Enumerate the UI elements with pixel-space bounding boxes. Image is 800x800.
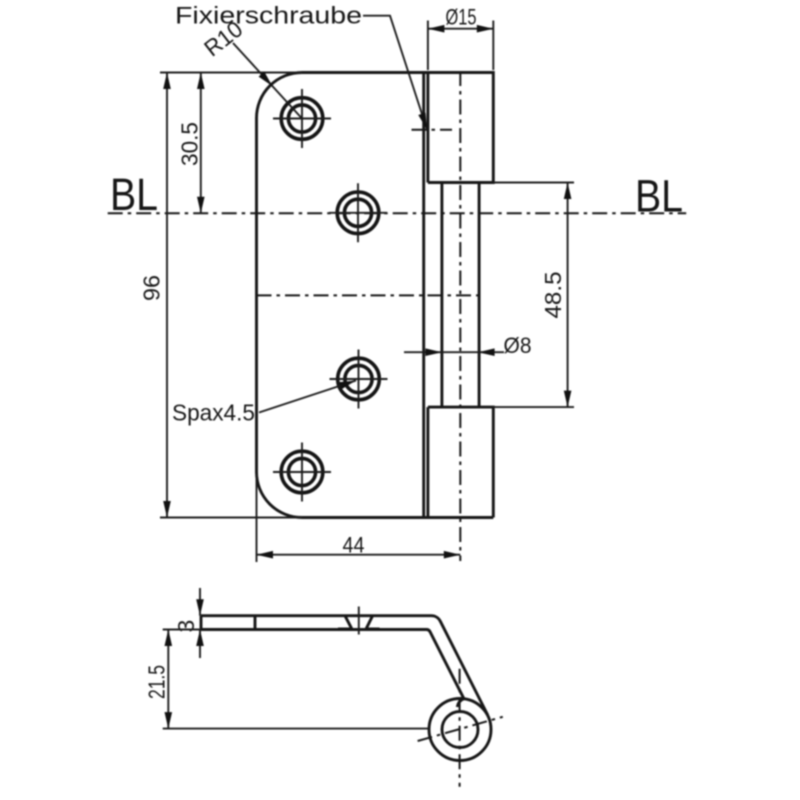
side view pin vertical centerline	[459, 669, 461, 787]
hinge plate outline with rounded corners	[257, 73, 494, 518]
svg-text:30.5: 30.5	[177, 122, 203, 166]
screw hole H2 on BL	[329, 183, 387, 242]
side view leaf left end cap	[200, 616, 203, 630]
side view leaf joint tick	[254, 616, 257, 630]
lower knuckle	[428, 407, 493, 517]
screw hole H4 bottom-left	[273, 443, 331, 502]
dimension 44 extension line	[256, 474, 258, 562]
svg-text:3: 3	[173, 620, 199, 633]
screw hole H1 top-left	[273, 89, 331, 148]
side view curled knuckle outer circle	[429, 699, 491, 761]
dimension Ø8 line	[404, 351, 504, 353]
dimension 96 line	[166, 73, 168, 518]
dimension 48.5 extension lines	[493, 183, 574, 408]
R10 leader line	[233, 43, 302, 119]
knuckle vertical centerline	[459, 71, 461, 561]
BL centerline horizontal	[108, 212, 687, 214]
dimension 96 extension lines	[160, 73, 302, 518]
svg-text:48.5: 48.5	[540, 272, 566, 319]
side view pin bore inner circle	[442, 712, 478, 748]
dimension 44 line	[257, 554, 461, 556]
countersunk screw hole section right flank	[366, 616, 372, 628]
svg-text:96: 96	[139, 275, 165, 301]
dimension 3 lines and arrows	[199, 588, 201, 658]
svg-text:BL: BL	[635, 171, 683, 222]
svg-text:Ø8: Ø8	[504, 333, 532, 358]
side view leaf top surface with bend	[201, 616, 488, 715]
svg-text:Spax4.5: Spax4.5	[172, 400, 255, 426]
Fixierschraube leader line	[363, 16, 427, 130]
dimension Ø15 line	[428, 28, 493, 30]
dimension 30.5 line	[200, 73, 202, 214]
plate mid centerline	[257, 294, 479, 296]
svg-text:BL: BL	[110, 169, 158, 220]
side view leaf bottom surface with bend	[201, 630, 464, 699]
side view slanted centerline	[418, 717, 503, 741]
dimension 21.5 line	[167, 630, 169, 729]
dimension 21.5 extension lines	[163, 630, 430, 729]
svg-text:Fixierschraube: Fixierschraube	[175, 3, 362, 30]
svg-text:44: 44	[343, 533, 365, 558]
svg-text:Ø15: Ø15	[446, 5, 477, 30]
screw hole H3	[330, 350, 388, 409]
countersunk hole bottom edge marks	[338, 627, 380, 630]
dimension 48.5 line	[567, 183, 569, 408]
countersunk screw hole section left flank	[345, 616, 351, 628]
side view curl slit	[457, 699, 464, 707]
countersunk hole centerline	[358, 607, 360, 635]
plate fold line (right edge of leaf)	[422, 73, 425, 518]
svg-text:21.5: 21.5	[144, 665, 170, 699]
hinge pin edges between knuckles	[442, 183, 479, 408]
fixing screw position mark	[412, 129, 453, 131]
dimension Ø15 extension lines	[428, 21, 493, 71]
Spax4.5 leader line	[259, 381, 356, 413]
